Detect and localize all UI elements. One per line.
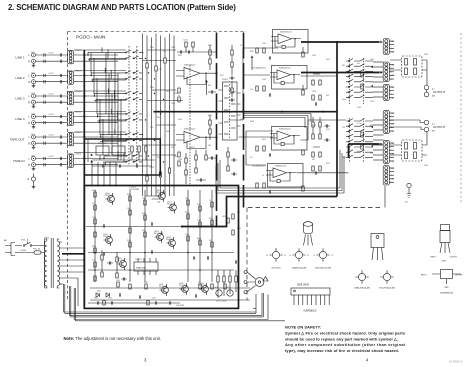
selector output bus wires <box>143 34 184 197</box>
svg-text:2SA970: 2SA970 <box>166 238 173 241</box>
op-amp IC402 (R) NJM4560LD <box>266 164 303 188</box>
input jacks LINE 4 (L/R) <box>15 113 66 128</box>
svg-text:NJM4560LD: NJM4560LD <box>280 31 292 33</box>
package drawing SIDE VIEW SIP NJM4560LD <box>291 285 330 313</box>
power amp value labels <box>92 190 241 284</box>
svg-text:R635: R635 <box>237 228 241 230</box>
wire TAPE IN to selector <box>74 159 118 165</box>
svg-text:4.7/50: 4.7/50 <box>357 123 362 125</box>
package drawing regulator TO-220 <box>431 225 459 263</box>
svg-text:C620: C620 <box>225 287 229 289</box>
signal flow arrow <box>251 56 254 71</box>
wire TAPE OUT to selector <box>74 137 118 143</box>
svg-text:R207: R207 <box>174 156 179 158</box>
svg-text:TAPE IN: TAPE IN <box>13 159 24 163</box>
svg-text:560: 560 <box>208 145 211 147</box>
svg-text:R309: R309 <box>166 131 170 133</box>
svg-text:2SC2240: 2SC2240 <box>159 286 167 288</box>
wire LINE 4 to selector <box>74 117 118 123</box>
tone column parts lower <box>312 117 330 142</box>
svg-text:R317: R317 <box>220 75 224 77</box>
svg-text:R: R <box>28 101 30 104</box>
svg-text:R307: R307 <box>157 117 161 119</box>
svg-text:560: 560 <box>326 95 329 97</box>
svg-text:68k: 68k <box>240 119 243 121</box>
svg-text:Note: The adjustment is not ne: Note: The adjustment is not necessary wi… <box>64 336 161 341</box>
svg-text:R623: R623 <box>142 213 146 215</box>
input jacks TAPE IN (L/R) <box>13 155 67 170</box>
svg-text:7-Q603: 7-Q603 <box>129 187 137 189</box>
transistor Q602 2SK246 <box>103 234 112 246</box>
speaker return wire <box>253 307 256 309</box>
svg-text:SIDE VIEW: SIDE VIEW <box>297 285 310 287</box>
page number 3 <box>144 358 147 363</box>
svg-text:R631: R631 <box>127 240 131 242</box>
svg-text:2SC2240: 2SC2240 <box>199 285 207 287</box>
svg-text:R621: R621 <box>127 194 131 196</box>
svg-text:1k: 1k <box>209 200 211 202</box>
junction on ground bus y=116.5 <box>83 115 85 117</box>
svg-text:C611: C611 <box>222 216 226 218</box>
svg-text:(R): (R) <box>432 96 435 98</box>
svg-text:0.022: 0.022 <box>150 167 154 169</box>
bottom wire run 2 <box>70 286 264 317</box>
svg-text:10k: 10k <box>357 63 360 65</box>
filter capacitors C619/C620 4700uF <box>214 287 233 296</box>
svg-text:L602: L602 <box>424 165 428 167</box>
svg-text:NF: NF <box>391 79 393 81</box>
svg-text:NF: NF <box>391 157 393 159</box>
svg-text:L: L <box>391 146 392 148</box>
board boundary jack-board (dashed) <box>243 33 245 208</box>
connector CN131 <box>68 91 82 105</box>
board right edge (faint dashed) <box>460 33 462 203</box>
svg-text:R313: R313 <box>312 125 316 127</box>
pre-driver stage parts <box>185 65 190 184</box>
svg-text:33k: 33k <box>312 159 315 161</box>
transistor Q604 2SC3298B <box>154 231 164 243</box>
svg-text:220: 220 <box>342 127 345 129</box>
svg-text:1k: 1k <box>178 95 180 97</box>
svg-text:0.022: 0.022 <box>49 114 55 116</box>
svg-text:100k: 100k <box>370 59 374 61</box>
tone amp passives <box>256 47 321 194</box>
svg-text:C607: C607 <box>142 198 146 200</box>
page number 4 <box>366 358 369 363</box>
muting input arrows <box>91 154 93 163</box>
svg-text:type), may increase risk of fi: type), may increase risk of fire or elec… <box>285 348 399 353</box>
extra left-half parts <box>101 250 127 281</box>
svg-text:F901 2A: F901 2A <box>33 247 41 250</box>
wires selector to muting box <box>146 196 161 202</box>
wire LINE 3 to selector <box>74 96 118 102</box>
bottom wire run 1 <box>60 284 257 313</box>
svg-text:10/16: 10/16 <box>178 159 182 161</box>
power amp block box <box>84 186 238 309</box>
ripple filter parts <box>190 147 207 182</box>
svg-text:2SK246(Y),(GR): 2SK246(Y),(GR) <box>315 268 331 270</box>
junction on ground bus y=96.0 <box>83 95 85 97</box>
transformer secondary wires <box>60 247 86 306</box>
output filter L601/R601 <box>390 54 428 77</box>
NOTE ON SAFETY block <box>285 325 406 353</box>
svg-text:2. SCHEMATIC DIAGRAM AND PARTS: 2. SCHEMATIC DIAGRAM AND PARTS LOCATION … <box>8 3 236 12</box>
svg-text:R: R <box>28 164 30 167</box>
svg-text:10k: 10k <box>127 208 130 210</box>
connector CN161 <box>68 154 82 168</box>
svg-text:0.022: 0.022 <box>49 53 55 55</box>
AC plug <box>4 239 22 256</box>
svg-text:OUTPUT: OUTPUT <box>450 257 459 259</box>
svg-text:2SK246: 2SK246 <box>103 236 110 238</box>
svg-text:Symbol △ Fire or electrical sh: Symbol △ Fire or electrical shock hazard… <box>285 331 406 336</box>
power amp passives <box>90 190 250 300</box>
muting block box <box>84 139 160 175</box>
supply rails inside power box <box>88 252 234 271</box>
power amp input bus (thick L-shape) <box>181 197 337 228</box>
svg-text:NJM4560LD: NJM4560LD <box>279 128 291 130</box>
wire LINE 1 to selector <box>74 55 118 61</box>
switch-connector wires <box>373 62 384 160</box>
bus to CN output L (thick, arrow) <box>301 41 383 44</box>
svg-text:0.022: 0.022 <box>49 94 55 96</box>
svg-text:2SA1208(Q),(R): 2SA1208(Q),(R) <box>354 287 370 290</box>
junction on ground bus y=158.5 <box>83 157 85 159</box>
svg-text:R307: R307 <box>250 51 254 53</box>
transistor Q601 2SK246 <box>105 193 114 205</box>
svg-text:L: L <box>391 171 392 173</box>
rectifier diodes D601-D604 <box>96 291 109 298</box>
wire runs below mid bus <box>244 114 312 129</box>
svg-text:2SC3298B: 2SC3298B <box>156 192 166 194</box>
bus junctions <box>160 111 324 113</box>
label 7-Q603 2SC3298B <box>129 187 140 192</box>
svg-text:MUTING: MUTING <box>98 143 106 145</box>
connector CN111 <box>68 50 82 64</box>
output jacks OUTPUT (lower) <box>390 120 446 133</box>
svg-text:R627: R627 <box>209 218 213 220</box>
svg-text:33k: 33k <box>208 85 211 87</box>
junction on ground bus y=55.0 <box>83 54 85 56</box>
svg-text:AC: AC <box>4 239 7 242</box>
svg-text:TAPE OUT: TAPE OUT <box>10 138 25 142</box>
svg-text:R615: R615 <box>190 147 195 149</box>
svg-text:R625: R625 <box>185 212 189 214</box>
svg-text:VX 555W 03: VX 555W 03 <box>449 361 463 364</box>
svg-text:10k: 10k <box>163 51 166 53</box>
svg-text:S901: S901 <box>21 240 25 242</box>
bus tone return (thick, arrow) <box>349 143 383 157</box>
input jacks LINE 2 (L/R) <box>15 72 66 87</box>
svg-text:2.2k: 2.2k <box>250 89 253 91</box>
svg-text:R307: R307 <box>370 125 374 127</box>
svg-text:C307: C307 <box>262 43 266 45</box>
svg-text:NF: NF <box>391 127 393 129</box>
input jacks TAPE OUT (L/R) <box>10 134 67 149</box>
svg-text:L: L <box>391 45 392 47</box>
svg-text:220: 220 <box>237 212 240 214</box>
AC outlet terminals <box>244 271 256 294</box>
pinout 2SC2910 <box>379 270 395 289</box>
svg-text:C627: C627 <box>152 298 156 300</box>
bus to CN output R (thick, arrow) <box>301 71 383 74</box>
svg-text:R637: R637 <box>144 282 148 284</box>
svg-text:C613: C613 <box>185 234 189 236</box>
svg-text:R633: R633 <box>197 238 201 240</box>
wire LINE 2 to selector <box>74 76 118 82</box>
svg-text:4.7/50: 4.7/50 <box>157 69 162 71</box>
bus thin continuation into power box <box>86 226 182 228</box>
svg-text:NJM4560LD: NJM4560LD <box>304 311 317 313</box>
svg-text:R311: R311 <box>178 55 182 57</box>
bottom row parts C625 etc <box>88 298 184 307</box>
svg-text:R629: R629 <box>92 246 96 248</box>
svg-text:R311: R311 <box>262 139 266 141</box>
pinout 2SA1208 <box>354 270 370 289</box>
op-amp IC401 (L) NJM4560LD <box>271 30 308 54</box>
svg-text:L: L <box>391 116 392 118</box>
power transformer T901 <box>38 238 62 289</box>
board edge (thick dashed vertical x=216) <box>216 33 218 227</box>
svg-text:R319: R319 <box>342 99 346 101</box>
bottom wire run 3 <box>74 288 285 321</box>
parts column x=232 (left of dashed boundary) <box>229 45 235 102</box>
svg-text:(R): (R) <box>432 131 435 133</box>
svg-text:R309: R309 <box>250 121 254 123</box>
svg-text:LINE 3: LINE 3 <box>15 97 25 101</box>
svg-text:C303: C303 <box>171 47 175 49</box>
svg-text:2SC3298B: 2SC3298B <box>154 233 164 235</box>
AC outlet socket <box>255 277 268 287</box>
svg-text:OUTPUT: OUTPUT <box>455 275 464 277</box>
IC601 NJM4558D <box>134 258 158 275</box>
tone switch S401 (L) <box>346 58 373 104</box>
package drawing TO-92 (3D) <box>304 222 313 246</box>
op-amp IC401 (R) NJM4560LD <box>270 66 307 90</box>
svg-text:CN106: CN106 <box>75 154 82 156</box>
svg-text:R317: R317 <box>326 163 330 165</box>
svg-text:T901: T901 <box>44 238 50 240</box>
tone switch S402 (R) <box>346 118 373 163</box>
decoupling parts x=225-240 <box>227 147 237 176</box>
feedback resistors R205/R207 <box>174 88 181 166</box>
phones jack J601 <box>405 183 411 203</box>
svg-text:NOTE ON SAFETY:: NOTE ON SAFETY: <box>285 325 321 330</box>
svg-text:2.2k: 2.2k <box>370 153 373 155</box>
output filter L602/R602 <box>390 132 428 167</box>
input jacks LINE 1 (L/R) <box>15 52 66 67</box>
signal bus (thick horizontal mid) <box>154 111 338 113</box>
svg-text:C201: C201 <box>183 40 188 42</box>
svg-text:C625: C625 <box>94 298 98 300</box>
svg-text:POWER: POWER <box>20 250 27 252</box>
board name label PG00-MAIN <box>76 35 105 40</box>
svg-text:VR301: VR301 <box>222 79 228 81</box>
svg-text:C311: C311 <box>326 129 330 131</box>
svg-text:INPUT: INPUT <box>421 275 428 277</box>
svg-text:2.2k: 2.2k <box>150 127 153 129</box>
svg-text:R: R <box>28 60 30 63</box>
svg-text:2SC2240: 2SC2240 <box>271 268 281 270</box>
svg-text:C309: C309 <box>178 119 182 121</box>
note text (adjustment) <box>64 336 161 341</box>
svg-text:100k: 100k <box>166 91 170 93</box>
svg-text:should be used to replace any: should be used to replace any part marke… <box>285 336 398 341</box>
svg-text:NJM78M12A: NJM78M12A <box>440 292 453 295</box>
svg-text:LINE 2: LINE 2 <box>15 76 25 80</box>
svg-text:C605: C605 <box>92 217 96 219</box>
svg-text:D601: D601 <box>97 291 101 293</box>
pinout 2SC2240 <box>267 248 287 269</box>
svg-text:C609: C609 <box>197 220 201 222</box>
svg-text:2.2k: 2.2k <box>92 260 95 262</box>
svg-text:INPUT: INPUT <box>431 257 438 259</box>
svg-text:PGOO - MAIN: PGOO - MAIN <box>76 35 105 40</box>
AC feed (thick) <box>62 253 84 255</box>
transistor Q619 2SC2240 <box>179 283 188 295</box>
svg-text:68k: 68k <box>342 65 345 67</box>
volume control VR301 <box>219 79 241 140</box>
op-amp IC201 (R) NJM4560LD <box>176 129 218 149</box>
rectifier/cap column D605-D608 <box>216 270 237 303</box>
svg-text:C619 4700/35: C619 4700/35 <box>216 301 227 303</box>
svg-text:R315: R315 <box>326 59 330 61</box>
connector stub wires <box>389 41 394 182</box>
interconnect wires mid-top <box>229 48 279 165</box>
matrix junctions <box>87 52 164 163</box>
svg-text:0.022: 0.022 <box>49 156 55 158</box>
svg-text:10/16: 10/16 <box>312 91 316 93</box>
op-amp IC402 (L) NJM4560LD <box>270 127 307 151</box>
jack board edge wire <box>384 186 386 208</box>
package drawing TO-126 <box>371 234 384 261</box>
svg-text:2SC2240: 2SC2240 <box>167 203 175 205</box>
svg-text:C303: C303 <box>357 107 361 109</box>
svg-text:R301: R301 <box>342 157 346 159</box>
svg-text:C311: C311 <box>240 45 244 47</box>
wires opamp outputs to switches <box>297 76 349 173</box>
pinout 2SK246 <box>314 248 334 269</box>
svg-text:33k: 33k <box>142 230 145 232</box>
svg-text:2SC3298B: 2SC3298B <box>129 189 140 191</box>
transistor Q617 2SC2240 <box>167 201 176 213</box>
svg-text:47k: 47k <box>250 157 253 159</box>
input jacks LINE 3 (L/R) <box>15 93 66 108</box>
fuse F901 <box>22 247 45 254</box>
svg-text:NJM4560LD: NJM4560LD <box>279 67 291 69</box>
svg-text:2SC2240: 2SC2240 <box>179 285 187 287</box>
junction on ground bus y=137.0 <box>83 136 85 138</box>
junction on ground bus y=75.5 <box>83 74 85 76</box>
misc value labels <box>150 45 244 169</box>
svg-text:47k: 47k <box>197 204 200 206</box>
svg-text:560: 560 <box>209 240 212 242</box>
svg-text:NJM4560LD: NJM4560LD <box>275 165 287 167</box>
svg-text:47/50: 47/50 <box>108 298 112 300</box>
svg-text:LINE 1: LINE 1 <box>15 56 25 60</box>
svg-text:LINE 4: LINE 4 <box>15 117 25 121</box>
title: 2. SCHEMATIC DIAGRAM AND PARTS LOCATION (Pattern Side) <box>8 3 236 12</box>
FET 2SK30A(GR) labels <box>252 66 266 167</box>
svg-text:R301: R301 <box>150 47 154 49</box>
svg-text:2SA970(Q),(R): 2SA970(Q),(R) <box>292 267 307 270</box>
svg-text:R: R <box>28 122 30 125</box>
svg-text:2SK30A(GR),(Y): 2SK30A(GR),(Y) <box>252 66 266 69</box>
connector CN601 column <box>383 39 389 186</box>
connector CN151 <box>68 132 82 146</box>
regulator block diagram NJM78M12A <box>421 270 464 295</box>
svg-text:OUTPUT: OUTPUT <box>433 125 446 129</box>
input selector switch S101 (rotary contacts) <box>74 46 142 166</box>
svg-text:NF: NF <box>391 182 393 184</box>
connector CN121 <box>68 71 82 85</box>
svg-text:OUT: OUT <box>391 161 395 163</box>
svg-text:GND: GND <box>442 261 447 263</box>
svg-text:C615: C615 <box>116 280 120 282</box>
power switch S901 <box>20 238 38 252</box>
ground bus wire (thick vertical) <box>83 50 85 306</box>
svg-text:L601: L601 <box>424 54 428 56</box>
op-amp IC201 (L) NJM4560LD <box>176 65 218 85</box>
wires descending into power box <box>91 162 175 186</box>
parts right of op-amp A <box>208 45 216 160</box>
svg-text:2SC2910(Q),(R): 2SC2910(Q),(R) <box>379 288 395 290</box>
svg-text:47k: 47k <box>171 147 174 149</box>
svg-text:0.022: 0.022 <box>49 135 55 137</box>
svg-text:2SK246: 2SK246 <box>105 195 112 197</box>
transistor Q611 2SC2240 <box>159 284 168 296</box>
svg-text:R: R <box>28 81 30 84</box>
svg-text:C305: C305 <box>171 103 175 105</box>
svg-text:1k: 1k <box>262 175 264 177</box>
svg-text:OUT: OUT <box>391 131 395 133</box>
svg-text:100: 100 <box>185 198 188 200</box>
svg-text:R619: R619 <box>92 190 96 192</box>
svg-text:L: L <box>391 90 392 92</box>
svg-text:!: ! <box>266 277 267 281</box>
wire runs lower tone return <box>216 150 344 193</box>
transistor Q605 2SC2240 <box>117 258 126 270</box>
board outline PG00-MAIN (dashed) <box>68 32 247 301</box>
doc id bottom right <box>449 361 463 364</box>
chassis ground E <box>28 174 36 189</box>
svg-text:OUTPUT: OUTPUT <box>433 90 446 94</box>
connector CN141 <box>68 112 82 126</box>
output jacks OUTPUT (upper) <box>424 60 445 98</box>
arrow marker near board edge <box>205 80 208 95</box>
svg-text:0.022: 0.022 <box>49 73 55 75</box>
svg-text:C305: C305 <box>370 101 374 103</box>
signal bus (thick vertical x=337) <box>336 42 338 197</box>
transistor Q603 2SC3298B <box>156 190 166 202</box>
svg-text:68k: 68k <box>198 282 201 284</box>
svg-text:Any other component substituti: Any other component substitution (other … <box>285 342 405 347</box>
transistor Q618 2SA970 <box>166 237 175 249</box>
transistor Q615 2SC2240 <box>199 283 208 295</box>
svg-text:R: R <box>28 142 30 145</box>
CN601 pin labels <box>391 41 396 184</box>
svg-text:R305: R305 <box>357 151 361 153</box>
svg-text:GND: GND <box>444 287 449 289</box>
svg-text:7-IC601: 7-IC601 <box>135 259 142 261</box>
svg-text:GND WIRE: GND WIRE <box>176 305 184 307</box>
pinout 2SA970 <box>290 248 310 269</box>
coupling parts C201/R201 <box>177 40 217 54</box>
svg-text:C309: C309 <box>312 55 316 57</box>
svg-text:0.022: 0.022 <box>262 79 266 81</box>
svg-text:C619: C619 <box>214 287 218 289</box>
svg-text:R305: R305 <box>150 87 154 89</box>
